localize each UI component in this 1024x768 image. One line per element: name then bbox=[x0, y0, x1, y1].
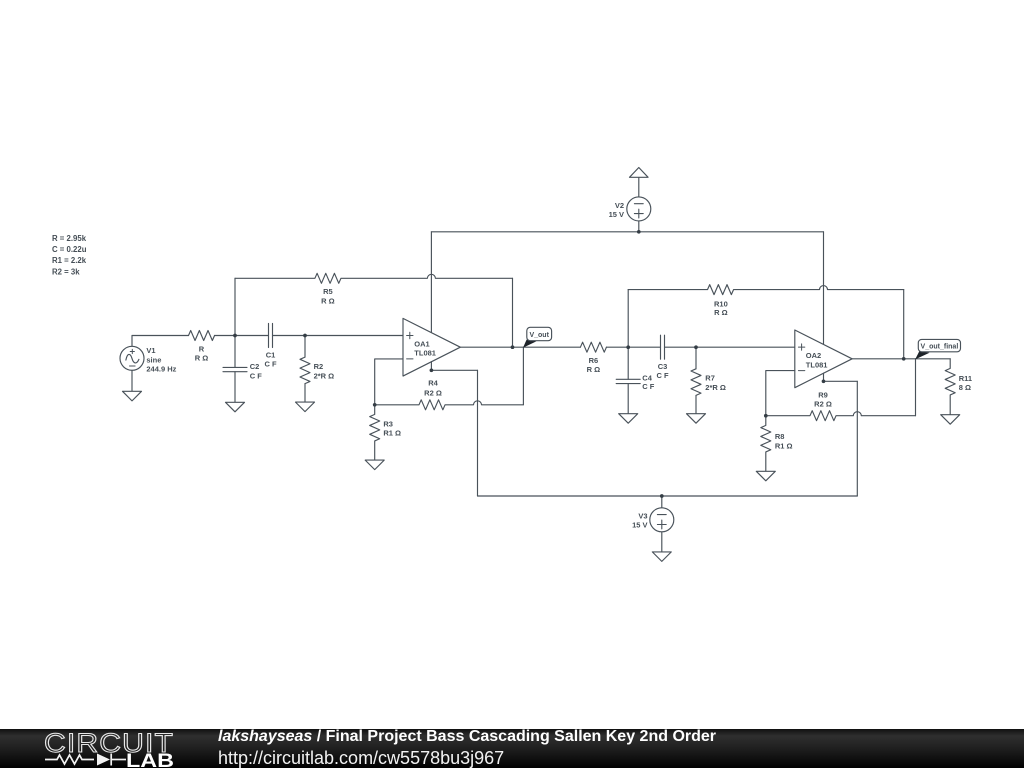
svg-text:R2 Ω: R2 Ω bbox=[814, 399, 832, 408]
svg-text:R Ω: R Ω bbox=[587, 365, 601, 374]
voltage source V1 bbox=[120, 346, 144, 370]
net flag V_out_final box bbox=[918, 339, 960, 351]
junction dot V2 rail bbox=[637, 230, 641, 234]
resistor R2 bbox=[300, 357, 310, 384]
svg-text:R9: R9 bbox=[818, 391, 828, 400]
wire R to node A bbox=[215, 335, 236, 337]
ground (R7) bbox=[687, 414, 706, 424]
svg-text:R5: R5 bbox=[323, 287, 333, 296]
svg-text:15 V: 15 V bbox=[632, 521, 647, 530]
OA2 plus input mark bbox=[798, 344, 804, 350]
svg-text:R10: R10 bbox=[714, 300, 728, 309]
wire node B down to R2 bbox=[304, 336, 306, 358]
V1 sine symbol bbox=[126, 354, 139, 363]
svg-text:R2 Ω: R2 Ω bbox=[424, 388, 442, 397]
resistor R3 bbox=[370, 405, 380, 460]
resistor R6 bbox=[580, 342, 606, 352]
net flag V_out pointer bbox=[523, 340, 537, 348]
wire OA1 V+ pin bbox=[430, 232, 432, 333]
resistor R labels bbox=[195, 344, 209, 362]
svg-text:R6: R6 bbox=[589, 356, 599, 365]
V1 plus mark bbox=[130, 349, 134, 353]
ground (V3) bbox=[652, 552, 671, 562]
wire C2 to ground bbox=[234, 372, 236, 403]
junction dot OA2 V- pin bbox=[822, 379, 826, 383]
ground (C4) bbox=[619, 414, 638, 424]
junction dot node A bbox=[233, 334, 237, 338]
voltage source V2 bbox=[638, 177, 640, 232]
resistor R11 labels bbox=[959, 374, 972, 392]
resistor R10 with hop over OA2 V+ line bbox=[628, 285, 904, 295]
wire R4 up to output bbox=[522, 347, 524, 405]
V2 labels bbox=[609, 201, 624, 219]
resistor R7 labels bbox=[705, 373, 726, 391]
wire R10 down to OA2 output bbox=[903, 290, 905, 359]
V3 minus mark bbox=[657, 514, 666, 516]
OA1 minus input mark bbox=[407, 358, 413, 360]
svg-text:R Ω: R Ω bbox=[321, 296, 335, 305]
wire down to bottom rail bbox=[477, 370, 479, 496]
capacitor C2 labels bbox=[250, 362, 263, 380]
capacitor C1 labels bbox=[264, 351, 277, 369]
junction dot R5/output bbox=[511, 345, 515, 349]
capacitor C2 bbox=[223, 367, 247, 371]
svg-text:2*R Ω: 2*R Ω bbox=[314, 371, 335, 380]
svg-text:R1 Ω: R1 Ω bbox=[383, 429, 401, 438]
svg-text:C2: C2 bbox=[250, 362, 260, 371]
svg-text:2*R Ω: 2*R Ω bbox=[705, 383, 726, 392]
wire node A up to R5 bbox=[234, 278, 236, 335]
wire R9 up to output bbox=[915, 359, 917, 416]
resistor R4 with hop bbox=[375, 400, 524, 410]
svg-text:C F: C F bbox=[264, 360, 277, 369]
svg-text:LAB: LAB bbox=[126, 751, 174, 768]
voltage source V3 bbox=[661, 496, 663, 552]
wire OA2 V- to vertical bbox=[824, 380, 858, 382]
svg-text:R Ω: R Ω bbox=[714, 308, 728, 317]
V3 plus mark bbox=[657, 520, 666, 529]
V1 minus mark bbox=[130, 365, 136, 367]
wire V1 to ground bbox=[131, 370, 133, 391]
junction dot R8/R9 bbox=[764, 414, 768, 418]
OA2 labels bbox=[806, 351, 828, 369]
top supply rail bbox=[431, 231, 823, 233]
svg-text:R: R bbox=[199, 344, 205, 353]
svg-text:R7: R7 bbox=[705, 373, 715, 382]
resistor R2 labels bbox=[314, 362, 335, 381]
wire OA1 output to R6 bbox=[460, 346, 580, 348]
junction dot node C bbox=[626, 345, 630, 349]
ground (C2) bbox=[226, 402, 245, 412]
resistor R9 with hop bbox=[766, 411, 916, 421]
junction dot R10/output bbox=[902, 357, 906, 361]
wire node D down to R7 bbox=[695, 347, 697, 369]
CircuitLab logo bbox=[0, 729, 200, 768]
svg-text:sine: sine bbox=[146, 356, 161, 365]
V2 minus mark bbox=[634, 203, 643, 205]
resistor R5 labels bbox=[321, 287, 335, 306]
junction dot R3/R4 bbox=[373, 403, 377, 407]
resistor R5 with wire and hop over OA1 V+ line bbox=[235, 273, 513, 283]
svg-text:V2: V2 bbox=[615, 201, 624, 210]
ground (R3) bbox=[365, 460, 384, 470]
OA1 labels bbox=[414, 339, 436, 357]
capacitor C1 bbox=[269, 324, 273, 348]
svg-text:C F: C F bbox=[642, 382, 655, 391]
ground (R8) bbox=[756, 471, 775, 481]
svg-text:R Ω: R Ω bbox=[195, 353, 209, 362]
svg-text:R2: R2 bbox=[314, 362, 324, 371]
capacitor C3 labels bbox=[656, 362, 669, 380]
svg-text:TL081: TL081 bbox=[806, 360, 828, 369]
svg-text:R4: R4 bbox=[428, 379, 438, 388]
svg-text:R1 = 2.2k: R1 = 2.2k bbox=[52, 256, 87, 265]
resistor R3 labels bbox=[383, 420, 401, 438]
wire node B to OA1 + input bbox=[305, 335, 403, 337]
wire C4 to ground bbox=[627, 384, 629, 414]
net flag V_out_final pointer bbox=[915, 351, 929, 359]
wire R7 to ground bbox=[695, 395, 697, 413]
net flag V_out box bbox=[527, 327, 552, 340]
capacitor C3 bbox=[661, 335, 665, 359]
wire OA1 V- pin down bbox=[430, 362, 432, 371]
svg-text:OA2: OA2 bbox=[806, 351, 821, 360]
annotation text block bbox=[52, 234, 87, 276]
wire OA2 output to R11 bbox=[852, 358, 950, 360]
ground (V1) bbox=[123, 391, 142, 401]
svg-text:C F: C F bbox=[656, 371, 669, 380]
wire R6 to node C bbox=[606, 346, 628, 348]
VCC arrow (V2) bbox=[630, 168, 649, 178]
resistor R9 labels bbox=[814, 391, 832, 409]
wire node A to C1 bbox=[235, 335, 269, 337]
junction dot node B bbox=[303, 334, 307, 338]
svg-text:V_out: V_out bbox=[529, 332, 549, 339]
OA1 plus input mark bbox=[407, 332, 413, 338]
svg-text:R11: R11 bbox=[959, 374, 972, 383]
footer url bbox=[218, 749, 504, 767]
svg-text:R1 Ω: R1 Ω bbox=[775, 441, 793, 450]
svg-text:V1: V1 bbox=[146, 346, 155, 355]
svg-text:TL081: TL081 bbox=[414, 348, 436, 357]
resistor R6 labels bbox=[587, 356, 601, 374]
V1 labels bbox=[146, 346, 176, 373]
wire R2 to ground bbox=[304, 384, 306, 402]
wire C1 to node B bbox=[273, 335, 306, 337]
wire V1 top to resistor R bbox=[132, 336, 189, 347]
wire node C to C3 bbox=[628, 346, 660, 348]
OA2 minus input mark bbox=[798, 370, 804, 372]
junction dot V3 rail bbox=[660, 494, 664, 498]
wire down to bottom rail (right) bbox=[856, 381, 858, 496]
wire OA2 V- pin down bbox=[823, 373, 825, 381]
wire OA2 V+ pin bbox=[823, 232, 825, 344]
wire OA2 - input bbox=[766, 371, 795, 416]
wire R5 down to OA1 output bbox=[512, 278, 514, 347]
svg-text:244.9 Hz: 244.9 Hz bbox=[146, 365, 176, 374]
svg-text:R = 2.95k: R = 2.95k bbox=[52, 234, 87, 243]
svg-text:V_out_final: V_out_final bbox=[921, 343, 959, 350]
svg-text:C F: C F bbox=[250, 371, 263, 380]
ground (R2) bbox=[296, 402, 315, 412]
wire node D to OA2 + input bbox=[696, 346, 795, 348]
resistor R10 labels bbox=[714, 300, 728, 318]
svg-text:C1: C1 bbox=[266, 351, 276, 360]
footer band bbox=[0, 729, 1024, 768]
capacitor C4 labels bbox=[642, 374, 655, 392]
svg-text:OA1: OA1 bbox=[414, 339, 429, 348]
junction dot OA1 V- pin bbox=[430, 368, 434, 372]
wire C3 to node D bbox=[665, 346, 697, 348]
svg-text:R2 = 3k: R2 = 3k bbox=[52, 267, 80, 276]
footer title bbox=[218, 729, 716, 745]
resistor R8 bbox=[761, 416, 771, 472]
V2 plus mark bbox=[634, 209, 643, 218]
wire OA1 - input bbox=[375, 359, 403, 405]
resistor R4 labels bbox=[424, 379, 442, 398]
V3 labels bbox=[632, 512, 647, 530]
svg-text:8 Ω: 8 Ω bbox=[959, 383, 971, 392]
resistor R8 labels bbox=[775, 432, 793, 450]
wire node C up to R10 bbox=[627, 290, 629, 348]
ground (R11) bbox=[941, 415, 960, 425]
resistor R bbox=[189, 331, 215, 341]
op-amp OA2 bbox=[795, 330, 852, 388]
svg-text:R8: R8 bbox=[775, 432, 785, 441]
capacitor C4 bbox=[616, 379, 640, 383]
svg-text:V3: V3 bbox=[638, 512, 647, 521]
bottom supply rail bbox=[478, 495, 858, 497]
resistor R11 bbox=[945, 359, 955, 415]
wire node C down to C4 bbox=[627, 347, 629, 379]
svg-text:C3: C3 bbox=[658, 362, 668, 371]
wire OA1 V- to vertical bbox=[431, 369, 477, 371]
wire node A down to C2 bbox=[234, 336, 236, 368]
svg-text:15 V: 15 V bbox=[609, 210, 624, 219]
svg-text:R3: R3 bbox=[383, 420, 393, 429]
resistor R7 bbox=[691, 369, 701, 396]
svg-text:C = 0.22u: C = 0.22u bbox=[52, 245, 87, 254]
junction dot node D bbox=[694, 345, 698, 349]
op-amp OA1 bbox=[403, 318, 460, 376]
